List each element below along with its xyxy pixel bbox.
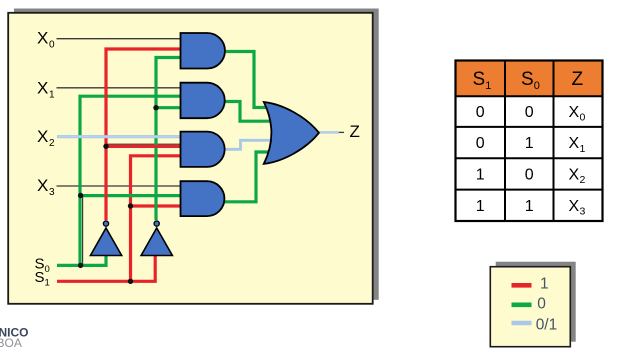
node S1 junction bbox=[128, 279, 133, 284]
svg-text:S: S bbox=[473, 69, 486, 90]
wire AND1 output to OR bbox=[225, 52, 277, 108]
circuit panel bbox=[8, 13, 373, 304]
node S1' junction bbox=[153, 105, 158, 110]
svg-text:0: 0 bbox=[525, 104, 534, 121]
svg-text:0: 0 bbox=[534, 80, 540, 92]
svg-text:BOA: BOA bbox=[0, 336, 22, 350]
wire S1 branch to AND4 bbox=[131, 204, 182, 207]
svg-text:X: X bbox=[569, 167, 580, 184]
wire S0' branch to AND3 bbox=[106, 145, 181, 148]
svg-text:1: 1 bbox=[525, 135, 534, 152]
svg-text:0: 0 bbox=[49, 40, 55, 51]
panel shadow bbox=[14, 9, 379, 300]
svg-text:S: S bbox=[35, 269, 45, 286]
wire AND3 input black base line bbox=[106, 143, 181, 145]
svg-text:1: 1 bbox=[49, 90, 55, 101]
svg-text:0: 0 bbox=[476, 104, 485, 121]
not gate NOT2 bbox=[141, 228, 172, 256]
svg-text:2: 2 bbox=[49, 138, 55, 149]
wire AND3 output to OR bbox=[225, 140, 278, 149]
svg-text:S: S bbox=[521, 69, 534, 90]
label X1 bbox=[37, 79, 55, 101]
svg-text:0: 0 bbox=[580, 112, 586, 124]
wire AND4 output to OR bbox=[225, 152, 277, 202]
label S0 bbox=[35, 256, 50, 275]
legend blue dash bbox=[512, 321, 532, 326]
svg-text:2: 2 bbox=[580, 174, 586, 186]
wire S0 input to NOT1 bbox=[57, 254, 106, 265]
svg-text:3: 3 bbox=[49, 187, 55, 198]
wire S0 branch to AND4 bbox=[80, 194, 181, 197]
not gate NOT1 bbox=[90, 228, 121, 256]
wire X2 blue core bbox=[58, 136, 180, 138]
not gate NOT2 bubble bbox=[154, 221, 159, 226]
svg-text:3: 3 bbox=[580, 206, 586, 218]
svg-text:1: 1 bbox=[540, 275, 549, 292]
svg-text:X: X bbox=[37, 79, 48, 98]
node S0' junction bbox=[103, 144, 108, 149]
svg-text:X: X bbox=[569, 198, 580, 215]
wire X0 bbox=[57, 38, 182, 40]
svg-text:1: 1 bbox=[476, 198, 485, 215]
and gate AND2 bbox=[181, 83, 225, 119]
label X2 bbox=[37, 127, 55, 149]
svg-text:0: 0 bbox=[525, 167, 534, 184]
label X0 bbox=[37, 29, 55, 51]
svg-text:X: X bbox=[37, 176, 48, 195]
wire X1 bbox=[57, 87, 182, 89]
label S1 bbox=[35, 269, 50, 289]
svg-text:1: 1 bbox=[580, 143, 586, 155]
or gate OR1 bbox=[264, 102, 319, 164]
table header S0 bbox=[521, 69, 540, 92]
wire Z output bbox=[319, 131, 339, 134]
label X3 bbox=[37, 176, 55, 198]
and gate AND1 bbox=[181, 33, 225, 69]
svg-text:Z: Z bbox=[350, 122, 360, 141]
wire AND2 output to OR bbox=[225, 102, 283, 122]
svg-text:1: 1 bbox=[485, 80, 491, 92]
svg-text:0: 0 bbox=[537, 295, 546, 312]
svg-text:1: 1 bbox=[525, 198, 534, 215]
wire S0 green feed to AND2 bbox=[80, 96, 181, 265]
svg-text:X: X bbox=[37, 127, 48, 146]
svg-text:X: X bbox=[569, 135, 580, 152]
wire S1 feed to AND3 bbox=[131, 156, 182, 281]
wire X2 blue bbox=[57, 135, 181, 138]
svg-text:1: 1 bbox=[476, 167, 485, 184]
and gate AND3 bbox=[181, 132, 225, 167]
legend green dash bbox=[512, 302, 532, 307]
wire S0 black companion bbox=[82, 196, 84, 266]
table row 2 bbox=[476, 135, 586, 155]
wire S0' red to AND1 bbox=[106, 49, 181, 220]
node S0-AND4 junction bbox=[78, 193, 83, 198]
wire X3 bbox=[57, 185, 182, 187]
not gate NOT1 bubble bbox=[103, 221, 108, 226]
wire S1' green from NOT2 to AND1 bbox=[156, 58, 181, 221]
wire S1' branch to AND2 bbox=[156, 106, 181, 109]
truth table bbox=[456, 61, 603, 222]
legend box bbox=[490, 267, 570, 347]
svg-text:Z: Z bbox=[572, 69, 584, 90]
legend red dash bbox=[512, 283, 532, 288]
svg-text:0: 0 bbox=[45, 264, 50, 275]
and gate AND4 bbox=[181, 181, 225, 216]
svg-text:X: X bbox=[37, 29, 48, 48]
wire S1 input to NOT2 bbox=[57, 254, 155, 281]
node S0 junction bbox=[78, 263, 83, 268]
table row 4 bbox=[476, 198, 586, 218]
legend shadow bbox=[496, 262, 576, 342]
svg-text:1: 1 bbox=[45, 278, 50, 289]
table row 1 bbox=[476, 104, 586, 124]
wire Z stub bbox=[339, 131, 344, 133]
table header S1 bbox=[473, 69, 492, 92]
node S1-AND4 junction bbox=[128, 203, 133, 208]
svg-text:0: 0 bbox=[476, 135, 485, 152]
table row 3 bbox=[476, 167, 586, 187]
svg-text:X: X bbox=[569, 104, 580, 121]
svg-text:0/1: 0/1 bbox=[536, 317, 558, 334]
